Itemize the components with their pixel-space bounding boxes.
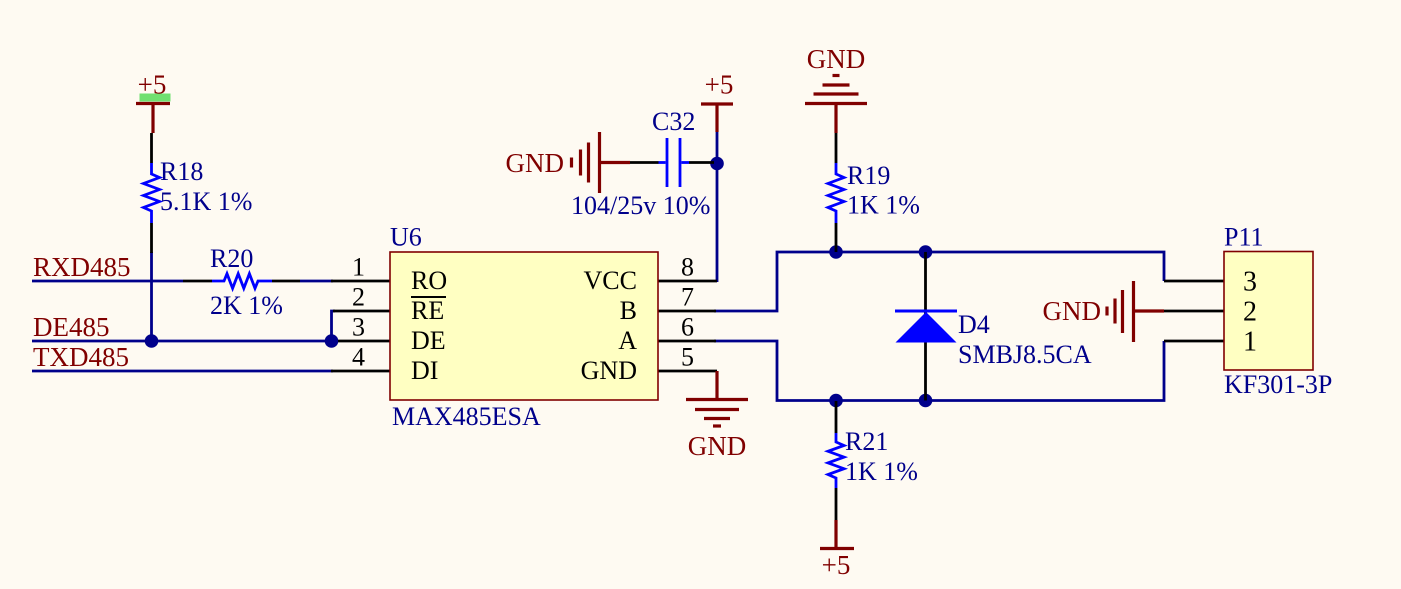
svg-text:GND: GND bbox=[1043, 296, 1102, 326]
svg-text:DE: DE bbox=[411, 326, 446, 355]
svg-text:RE: RE bbox=[411, 296, 444, 325]
svg-text:R21: R21 bbox=[845, 427, 888, 456]
svg-text:GND: GND bbox=[807, 44, 866, 74]
svg-text:GND: GND bbox=[506, 148, 565, 178]
svg-text:GND: GND bbox=[688, 431, 747, 461]
svg-text:104/25v 10%: 104/25v 10% bbox=[571, 191, 710, 220]
svg-text:C32: C32 bbox=[652, 107, 695, 136]
svg-text:+5: +5 bbox=[705, 70, 734, 100]
svg-text:R19: R19 bbox=[847, 161, 890, 190]
svg-text:2: 2 bbox=[352, 283, 365, 312]
svg-text:2K 1%: 2K 1% bbox=[210, 291, 283, 320]
svg-text:2: 2 bbox=[1243, 297, 1257, 328]
svg-text:VCC: VCC bbox=[584, 266, 637, 295]
svg-text:SMBJ8.5CA: SMBJ8.5CA bbox=[958, 340, 1092, 369]
svg-text:3: 3 bbox=[352, 313, 365, 342]
svg-text:DI: DI bbox=[411, 356, 438, 385]
svg-text:8: 8 bbox=[681, 253, 694, 282]
svg-text:7: 7 bbox=[681, 283, 694, 312]
svg-text:1: 1 bbox=[352, 253, 365, 282]
svg-text:B: B bbox=[620, 296, 637, 325]
svg-text:6: 6 bbox=[681, 313, 694, 342]
svg-text:TXD485: TXD485 bbox=[33, 342, 129, 372]
svg-text:4: 4 bbox=[352, 343, 365, 372]
svg-text:R20: R20 bbox=[210, 244, 253, 273]
svg-text:1K 1%: 1K 1% bbox=[847, 191, 920, 220]
svg-text:D4: D4 bbox=[958, 310, 990, 339]
svg-text:1K 1%: 1K 1% bbox=[845, 457, 918, 486]
svg-text:5.1K 1%: 5.1K 1% bbox=[160, 187, 252, 216]
svg-text:P11: P11 bbox=[1224, 223, 1264, 252]
svg-text:U6: U6 bbox=[390, 223, 422, 252]
svg-text:5: 5 bbox=[681, 343, 694, 372]
svg-text:A: A bbox=[618, 326, 637, 355]
svg-text:KF301-3P: KF301-3P bbox=[1224, 370, 1332, 399]
svg-text:DE485: DE485 bbox=[33, 312, 110, 342]
svg-text:RXD485: RXD485 bbox=[33, 252, 131, 282]
svg-text:R18: R18 bbox=[160, 157, 203, 186]
svg-text:RO: RO bbox=[411, 266, 447, 295]
svg-text:3: 3 bbox=[1243, 267, 1257, 298]
svg-text:GND: GND bbox=[581, 356, 637, 385]
svg-text:+5: +5 bbox=[138, 70, 167, 100]
svg-text:1: 1 bbox=[1243, 327, 1257, 358]
svg-text:+5: +5 bbox=[822, 550, 851, 580]
svg-text:MAX485ESA: MAX485ESA bbox=[392, 402, 541, 431]
